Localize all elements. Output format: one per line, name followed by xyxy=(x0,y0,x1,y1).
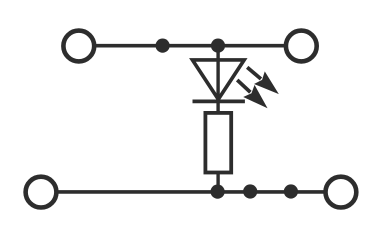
terminal circle bottom-left xyxy=(26,177,57,208)
wire vertical branch (top rail to resistor) xyxy=(216,46,219,114)
terminal circle top-left xyxy=(63,31,94,62)
junction dot top 1 xyxy=(156,39,170,53)
LED D1 cathode bar xyxy=(193,100,245,104)
LED light emission arrow 2 xyxy=(232,74,274,114)
resistor R1 xyxy=(205,113,231,173)
wire resistor to bottom rail xyxy=(216,173,219,193)
LED light emission arrow 1 xyxy=(242,61,284,101)
junction dot bottom 2 xyxy=(243,184,257,198)
terminal circle top-right xyxy=(286,31,317,62)
wire top rail xyxy=(95,44,285,48)
terminal circle bottom-right xyxy=(326,177,357,208)
wire bottom rail xyxy=(58,190,325,194)
junction dot top 2 (node to LED branch) xyxy=(211,39,225,53)
junction dot bottom 1 xyxy=(211,185,225,199)
junction dot bottom 3 xyxy=(284,184,298,198)
LED D1 triangle (anode) xyxy=(192,60,244,99)
